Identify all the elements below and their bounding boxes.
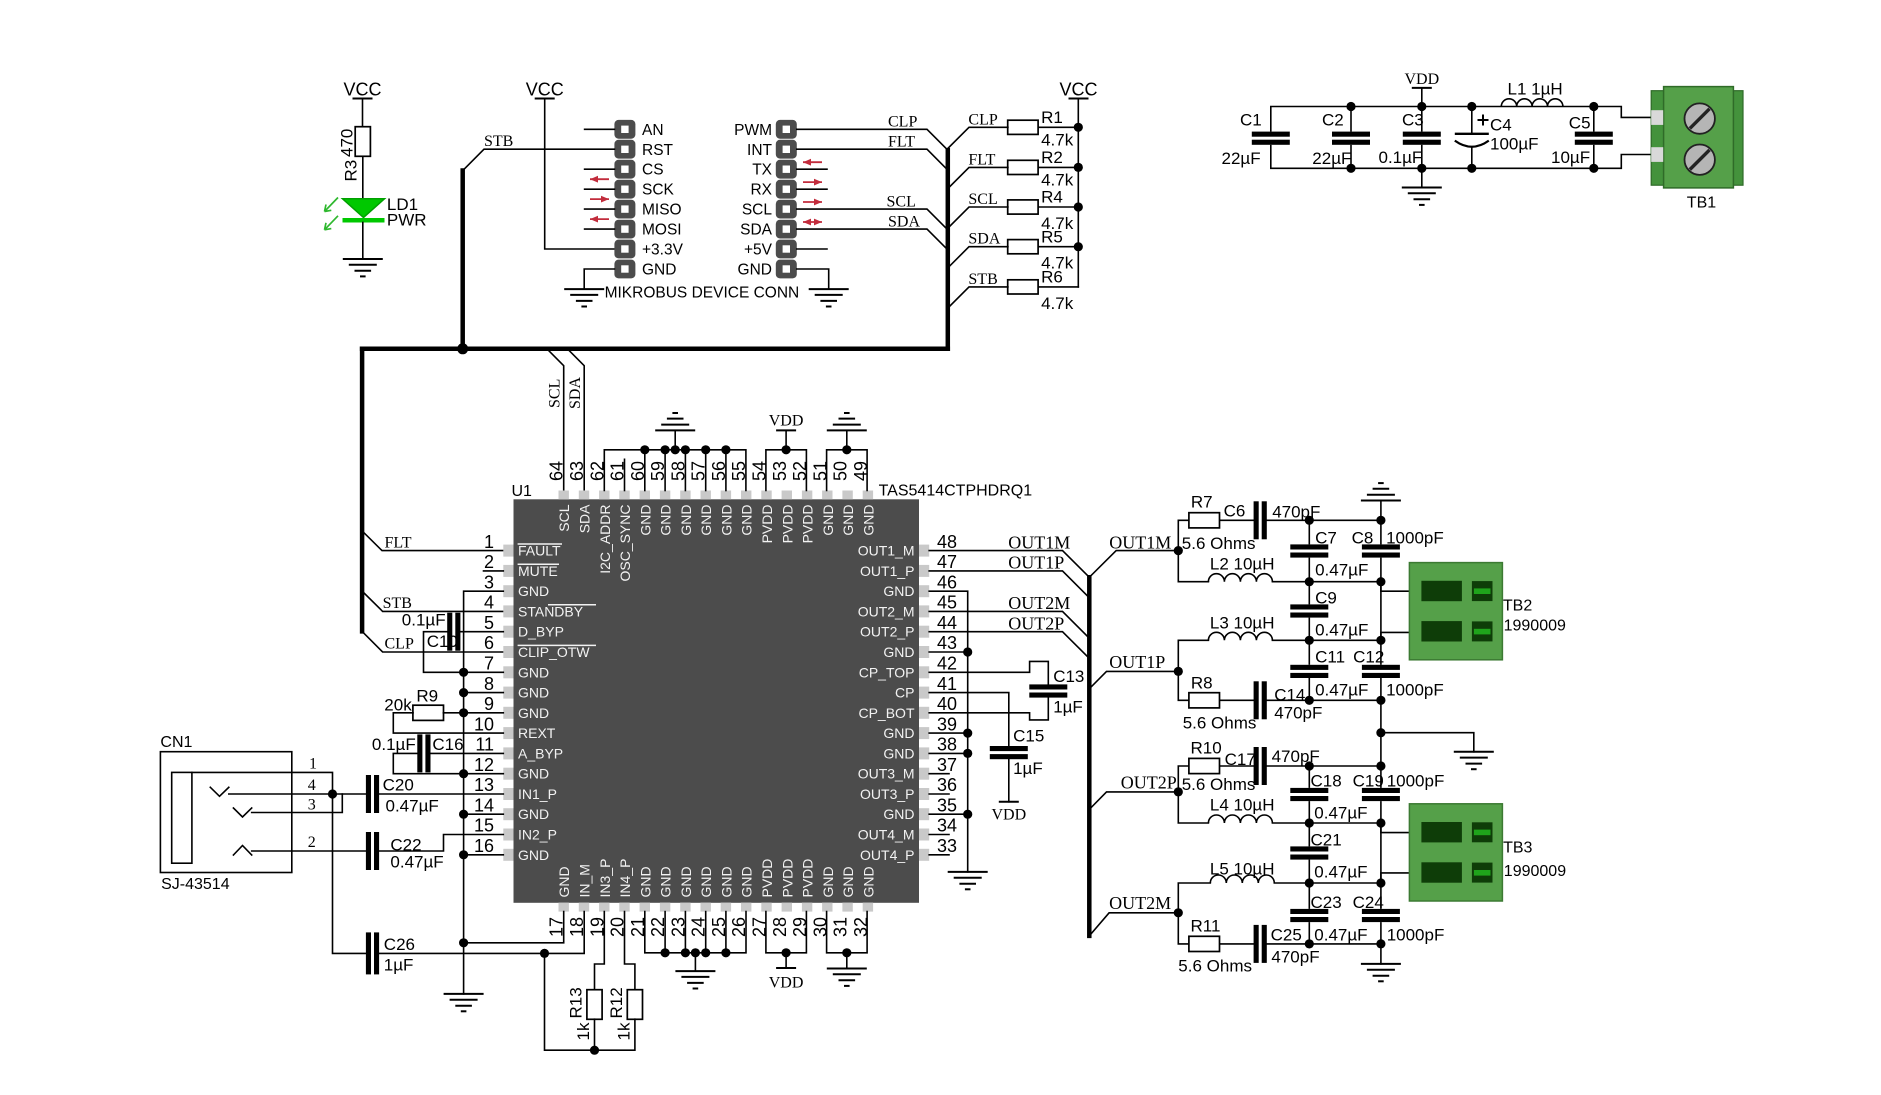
- U1 pin 2 stub: [484, 570, 504, 572]
- U1 MUTE overline: [518, 563, 559, 565]
- svg-text:OUT3_P: OUT3_P: [860, 786, 914, 802]
- svg-text:1k: 1k: [614, 1022, 633, 1040]
- U1 pin 11 (A_BYP): [475, 735, 563, 762]
- wire net SDA (bus to U1 pin 63): [567, 349, 584, 491]
- svg-text:C26: C26: [384, 935, 415, 954]
- connector CN1 outline: [160, 752, 291, 873]
- wire R1 to VCC rail: [1038, 126, 1078, 128]
- svg-text:SJ-43514: SJ-43514: [161, 876, 230, 893]
- U1 pin 48 (OUT1_M): [858, 532, 957, 559]
- wire FLT to R2: [948, 167, 1008, 188]
- junction (C17/C19 rail): [1376, 761, 1385, 770]
- wire C10 to GND (via pin 7 row): [424, 632, 464, 673]
- wire top GND rail (pins 62,60-55): [604, 450, 746, 491]
- svg-text:OUT1M: OUT1M: [1008, 532, 1070, 552]
- wire U1 pin 14 to GND vertical: [464, 813, 504, 815]
- wire OUT1P node to L3: [1178, 640, 1208, 671]
- wire VCC to R3: [362, 99, 364, 128]
- resistor R9: [413, 705, 444, 720]
- svg-text:RST: RST: [642, 142, 674, 159]
- svg-text:STB: STB: [484, 133, 513, 150]
- svg-text:4.7k: 4.7k: [1041, 130, 1074, 149]
- svg-text:GND: GND: [840, 505, 856, 536]
- capacitor C8: [1362, 544, 1400, 549]
- svg-text:SCL: SCL: [556, 504, 572, 531]
- wire MISO stub: [585, 208, 615, 210]
- svg-text:R8: R8: [1191, 674, 1213, 693]
- wire L4 to TB3 row: [1272, 822, 1381, 824]
- wire OUT2P node to L4: [1178, 792, 1208, 823]
- svg-text:38: 38: [937, 735, 957, 755]
- svg-text:OUT1_P: OUT1_P: [860, 563, 914, 579]
- power flag VDD (C15, inverted): [999, 801, 1019, 803]
- svg-text:R5: R5: [1041, 227, 1063, 246]
- U1 pin 44 (OUT2_P): [860, 613, 957, 640]
- svg-text:470: 470: [338, 129, 357, 157]
- U1 pin 42 (CP_TOP): [859, 654, 957, 681]
- inductor L1: [1501, 99, 1563, 107]
- U1 pin 26 (GND): [729, 866, 755, 937]
- svg-text:GND: GND: [698, 505, 714, 536]
- U1 pin 36 stub: [929, 793, 949, 795]
- svg-text:VDD: VDD: [991, 807, 1026, 824]
- wire CP (pin 41) to C15: [929, 693, 1009, 746]
- svg-text:0.1µF: 0.1µF: [372, 735, 416, 754]
- U1 pin 59 (GND): [648, 461, 674, 536]
- svg-text:R2: R2: [1041, 148, 1063, 167]
- svg-text:R9: R9: [416, 687, 438, 706]
- junction (pin 60/GND rail): [640, 445, 649, 454]
- capacitor C15: [990, 746, 1028, 751]
- wire right header GND to ground: [797, 269, 829, 289]
- svg-text:1µF: 1µF: [384, 956, 414, 975]
- wire U1 pin 8 to GND vertical: [464, 692, 504, 694]
- capacitor C21: [1290, 846, 1328, 851]
- U1 pin 16 (GND): [474, 836, 549, 863]
- capacitor C1: [1270, 107, 1272, 132]
- U1 pin 7 (GND): [484, 654, 549, 681]
- svg-text:C14: C14: [1274, 686, 1305, 705]
- wire R12 to U1 pin 20 (IN4_P): [625, 912, 635, 990]
- svg-text:OUT2P: OUT2P: [1008, 613, 1064, 633]
- svg-text:1000pF: 1000pF: [1387, 772, 1445, 791]
- svg-text:A_BYP: A_BYP: [518, 745, 563, 761]
- svg-text:11: 11: [475, 735, 494, 755]
- svg-text:MUTE: MUTE: [518, 563, 558, 579]
- wire R3 to LED: [362, 156, 364, 199]
- wire U1 pin 43 to right GND vertical: [929, 651, 968, 653]
- U1 pin 61 (OSC_SYNC): [608, 461, 634, 582]
- bus wire (right vertical trunk): [946, 150, 951, 349]
- svg-text:C7: C7: [1315, 529, 1337, 548]
- svg-text:GND: GND: [518, 583, 549, 599]
- svg-text:32: 32: [851, 917, 871, 937]
- svg-text:SCK: SCK: [642, 182, 675, 199]
- wire U1 pin 44 (OUT2_P) to bus: [929, 632, 1089, 659]
- wire OUT2M node to R11: [1178, 913, 1188, 944]
- wire net FLT (INT pin to bus): [797, 149, 948, 170]
- junction (C7 bottom/L2): [1305, 577, 1314, 586]
- svg-text:CLP: CLP: [968, 111, 997, 128]
- junction (pin 24/bottom GND rail): [701, 948, 710, 957]
- ground (right GND vertical): [948, 871, 988, 873]
- wire L3 node to TB2 lower terminal: [1381, 632, 1410, 640]
- svg-text:0.47µF: 0.47µF: [390, 853, 443, 872]
- svg-text:0.47µF: 0.47µF: [1315, 561, 1368, 580]
- svg-text:13: 13: [474, 775, 494, 795]
- svg-text:GND: GND: [883, 583, 914, 599]
- direction arrow (TX/RX): [803, 179, 822, 186]
- svg-text:GND: GND: [738, 262, 772, 279]
- capacitor C2: [1350, 107, 1352, 132]
- svg-text:GND: GND: [860, 866, 876, 897]
- svg-text:CLP: CLP: [385, 636, 414, 653]
- ground (right header): [809, 288, 849, 290]
- wire OUT2M node to L5: [1178, 883, 1210, 913]
- ground (left header): [564, 288, 604, 290]
- junction (pin 7/GND vertical): [459, 668, 468, 677]
- ground (output filters bottom): [1361, 963, 1401, 965]
- U1 pin 32 (GND): [851, 866, 877, 937]
- wire net STB (RST pin to bus): [463, 149, 615, 170]
- wire ground tap (pins 50): [846, 430, 848, 449]
- svg-text:VDD: VDD: [769, 413, 804, 430]
- resistor R10: [1189, 758, 1220, 773]
- wire SCK stub: [585, 188, 615, 190]
- wire net OUT2M (bus to filter): [1089, 913, 1178, 936]
- U1 CLIP_OTW overline: [518, 644, 596, 646]
- wire CN1 pin 3: [252, 794, 343, 813]
- capacitor C25: [1254, 925, 1259, 963]
- wire CN1 pin 2: [252, 850, 366, 852]
- junction (C3/bottom rail): [1417, 164, 1426, 173]
- svg-text:SCL: SCL: [547, 379, 564, 408]
- svg-text:C17: C17: [1225, 750, 1256, 769]
- U1 pin 51 (GND): [810, 461, 836, 536]
- bus wire (left vertical trunk): [360, 349, 365, 632]
- junction (STB/trunk): [457, 343, 468, 354]
- wire U1 pin 47 (OUT1_P) to bus: [929, 571, 1089, 598]
- svg-text:GND: GND: [820, 866, 836, 897]
- junction (C3/top rail): [1417, 102, 1426, 111]
- junction (C5/bottom rail): [1589, 164, 1598, 173]
- svg-text:4.7k: 4.7k: [1041, 170, 1074, 189]
- wire C17 to rails: [1267, 765, 1381, 767]
- wire net FLT (bus to U1 pin 1): [362, 531, 503, 551]
- svg-text:C24: C24: [1353, 893, 1384, 912]
- svg-text:41: 41: [937, 674, 957, 694]
- svg-text:C6: C6: [1224, 502, 1246, 521]
- U1 pin 6 (CLIP_OTW): [484, 633, 590, 660]
- junction (C2/top rail): [1346, 102, 1355, 111]
- svg-text:1000pF: 1000pF: [1387, 926, 1445, 945]
- ground (top right rail, inverted): [827, 429, 867, 431]
- junction (C4/top rail): [1467, 102, 1476, 111]
- U1 pin 9 (GND): [484, 694, 549, 721]
- capacitor C18: [1290, 788, 1328, 793]
- wire left GND vertical (pin 3 to ground): [464, 591, 504, 994]
- U1 pin 1 (FAULT): [484, 532, 561, 559]
- U1 pin 62 (I2C_ADDR): [587, 461, 613, 574]
- svg-text:OSC_SYNC: OSC_SYNC: [617, 505, 633, 582]
- wire net SDA (SDA pin to bus): [797, 229, 948, 250]
- svg-text:C23: C23: [1311, 893, 1342, 912]
- U1 pin 52 (PVDD): [790, 461, 816, 543]
- U1 pin 55 (GND): [729, 461, 755, 536]
- wire L4 node to TB3 upper terminal: [1381, 823, 1410, 833]
- U1 pin 34 stub: [929, 834, 949, 836]
- svg-text:L5 10µH: L5 10µH: [1210, 860, 1275, 879]
- wire right GND vertical (pin 46 to ground): [929, 591, 968, 872]
- wire net OUT1M (bus to filter): [1089, 551, 1178, 578]
- wire VCC rail for pull-ups: [1077, 99, 1079, 287]
- resistor R4: [1008, 200, 1038, 214]
- junction (C14/C11 rail): [1305, 696, 1314, 705]
- junction (pin 50 ground tap): [842, 445, 851, 454]
- svg-text:12: 12: [474, 755, 494, 775]
- svg-text:C15: C15: [1013, 727, 1044, 746]
- wire CP_BOT (pin 40) to C13: [929, 698, 1048, 720]
- svg-text:1µF: 1µF: [1013, 759, 1043, 778]
- svg-text:+5V: +5V: [744, 242, 773, 259]
- resistor R8: [1189, 693, 1220, 708]
- junction (C9 bottom/L3): [1305, 636, 1314, 645]
- svg-text:C13: C13: [1053, 667, 1084, 686]
- U1 pin 31 (GND): [831, 866, 857, 937]
- svg-text:GND: GND: [883, 725, 914, 741]
- junction (pin 43/right GND vertical): [963, 647, 972, 656]
- wire R9 to GND vertical: [443, 712, 463, 714]
- capacitor C7: [1290, 544, 1328, 549]
- svg-text:47: 47: [937, 552, 957, 572]
- svg-text:46: 46: [937, 572, 957, 592]
- junction (C2/bottom rail): [1346, 164, 1355, 173]
- svg-text:31: 31: [831, 917, 851, 937]
- svg-text:R10: R10: [1191, 739, 1222, 758]
- U1 pin 37 (OUT3_M): [858, 755, 957, 782]
- svg-text:C5: C5: [1569, 114, 1591, 133]
- svg-text:OUT2_M: OUT2_M: [858, 603, 915, 619]
- svg-text:C18: C18: [1311, 772, 1342, 791]
- junction (OUT1M node): [1174, 546, 1183, 555]
- svg-text:L4 10µH: L4 10µH: [1210, 796, 1275, 815]
- junction (pin 23/bottom GND rail): [681, 948, 690, 957]
- svg-text:34: 34: [937, 816, 957, 836]
- resistor R3: [355, 127, 370, 157]
- bus wire (output trunk): [1087, 577, 1092, 936]
- U1 pin 15 (IN2_P): [474, 816, 557, 843]
- capacitor C4 (electrolytic): [1455, 107, 1489, 169]
- svg-text:2: 2: [484, 552, 494, 572]
- wire R7 to C6: [1220, 519, 1254, 521]
- svg-text:IN_M: IN_M: [577, 864, 593, 897]
- U1 pin 28 (PVDD): [770, 859, 796, 937]
- svg-text:4: 4: [484, 593, 494, 613]
- wire C22 to U1 pin 15 (IN2_P): [379, 835, 503, 852]
- wire stub pin 60 to GND rail: [644, 450, 646, 491]
- svg-text:GND: GND: [642, 262, 676, 279]
- ground (snubber, inverted): [1361, 500, 1401, 502]
- resistor R7: [1189, 513, 1220, 528]
- U1 pin 64 (SCL): [547, 461, 573, 532]
- svg-text:C16: C16: [432, 735, 463, 754]
- U1 pin 45 (OUT2_M): [858, 593, 957, 620]
- wire stub pin 25 to bottom GND rail: [725, 912, 727, 953]
- svg-text:16: 16: [474, 836, 494, 856]
- svg-text:IN1_P: IN1_P: [518, 786, 557, 802]
- U1 pin 61 stub (OSC_SYNC): [624, 459, 626, 490]
- C4 polarity +: [1478, 115, 1489, 126]
- svg-text:GND: GND: [883, 806, 914, 822]
- wire VDD to top rail: [1421, 88, 1423, 107]
- svg-text:43: 43: [937, 633, 957, 653]
- svg-text:50: 50: [831, 461, 851, 481]
- svg-text:STB: STB: [383, 595, 412, 612]
- svg-text:GND: GND: [820, 505, 836, 536]
- svg-text:TB2: TB2: [1503, 598, 1532, 615]
- wire RX stub: [797, 188, 827, 190]
- svg-text:GND: GND: [698, 866, 714, 897]
- svg-text:4: 4: [308, 777, 316, 794]
- svg-text:SCL: SCL: [742, 202, 773, 219]
- svg-text:SCL: SCL: [968, 191, 997, 208]
- direction arrow (MISO/MOSI): [590, 216, 609, 223]
- svg-text:GND: GND: [518, 705, 549, 721]
- capacitor C26: [366, 932, 371, 974]
- svg-text:+3.3V: +3.3V: [642, 242, 684, 259]
- junction (C18 bottom/L4): [1305, 818, 1314, 827]
- svg-text:GND: GND: [518, 806, 549, 822]
- svg-text:33: 33: [937, 836, 957, 856]
- junction (R4/VCC rail): [1074, 202, 1083, 211]
- svg-text:C9: C9: [1315, 589, 1337, 608]
- svg-text:0.47µF: 0.47µF: [1315, 621, 1368, 640]
- wire CS stub: [585, 168, 615, 170]
- wire VCC to +3.3V pin: [545, 99, 615, 250]
- LED LD1 (PWR): [343, 199, 385, 221]
- junction (C14/C12 rail): [1376, 696, 1385, 705]
- wire net CLP (bus to U1 pin 6): [362, 631, 503, 652]
- svg-text:CS: CS: [642, 162, 664, 179]
- svg-text:1: 1: [309, 756, 317, 773]
- svg-text:INT: INT: [747, 142, 773, 159]
- wire left header GND to ground: [584, 269, 614, 289]
- svg-text:OUT1M: OUT1M: [1109, 532, 1171, 552]
- svg-text:TB3: TB3: [1503, 840, 1532, 857]
- wire C10 to pin 5 (D_BYP): [460, 631, 503, 633]
- U1 pin 34 (OUT4_M): [858, 816, 957, 843]
- wire STB to R6: [948, 287, 1008, 308]
- svg-text:GND: GND: [718, 505, 734, 536]
- svg-text:R13: R13: [567, 987, 586, 1018]
- svg-text:3: 3: [484, 572, 494, 592]
- wire C24 rail to ground: [1380, 944, 1382, 964]
- wire power filter bottom rail: [1271, 167, 1594, 169]
- svg-text:5.6 Ohms: 5.6 Ohms: [1178, 957, 1252, 976]
- U1 pin 14 (GND): [474, 795, 549, 822]
- capacitor C12: [1362, 665, 1400, 670]
- svg-text:10µF: 10µF: [1551, 148, 1590, 167]
- wire net OUT2P (bus to filter): [1089, 792, 1178, 810]
- svg-text:GND: GND: [518, 847, 549, 863]
- wire top rail to TB1 pin 1: [1594, 107, 1651, 118]
- U1 FAULT overline: [518, 543, 562, 545]
- junction (C6/C7 rail): [1305, 516, 1314, 525]
- inductor L5: [1210, 875, 1274, 883]
- svg-text:MOSI: MOSI: [642, 222, 682, 239]
- wire OUT2P node to R10: [1178, 766, 1188, 792]
- capacitor C9: [1290, 604, 1328, 609]
- junction (ground tap/GND rail): [671, 445, 680, 454]
- svg-text:FLT: FLT: [888, 134, 915, 151]
- svg-text:1000pF: 1000pF: [1386, 529, 1444, 548]
- CN1 pin 3 contact: [233, 808, 251, 817]
- wire U1 pin 39 to right GND vertical: [929, 732, 968, 734]
- U1 pin 25 (GND): [709, 866, 735, 937]
- junction (C21 bottom/L5): [1305, 878, 1314, 887]
- svg-text:SDA: SDA: [740, 222, 773, 239]
- inductor L3: [1208, 632, 1272, 640]
- svg-text:RX: RX: [750, 182, 772, 199]
- U1 pin 30 (GND): [810, 866, 836, 937]
- junction (bottom ground tap): [691, 948, 700, 957]
- wire bottom rail to TB1 pin 2: [1594, 155, 1651, 169]
- junction (pin 16/GND vertical): [459, 850, 468, 859]
- U1 pin 33 (OUT4_P): [860, 836, 957, 863]
- svg-text:0.47µF: 0.47µF: [1314, 863, 1367, 882]
- svg-text:5.6 Ohms: 5.6 Ohms: [1182, 534, 1256, 553]
- svg-text:1k: 1k: [574, 1022, 593, 1040]
- direction arrow (CS/SCK): [590, 176, 609, 183]
- U1 pin 60 (GND): [628, 461, 654, 536]
- svg-text:C10: C10: [427, 632, 458, 651]
- junction (pin 17 wire/GND vertical): [459, 938, 468, 947]
- svg-text:1990009: 1990009: [1504, 618, 1566, 635]
- svg-text:REXT: REXT: [518, 725, 556, 741]
- wire stub pin 56 to GND rail: [725, 450, 727, 491]
- wire top VDD rail (pins 54-52): [766, 450, 807, 491]
- svg-text:U1: U1: [512, 483, 533, 500]
- svg-text:470pF: 470pF: [1274, 704, 1322, 723]
- wire stub pin 23 to bottom GND rail: [684, 912, 686, 953]
- CN1 pin 2 contact: [233, 846, 251, 856]
- U1 pin 3 (GND): [484, 572, 549, 599]
- svg-text:44: 44: [937, 613, 957, 633]
- svg-text:C11: C11: [1315, 648, 1345, 667]
- U1 pin 56 (GND): [709, 461, 735, 536]
- junction (pin 14/GND vertical): [459, 810, 468, 819]
- junction (pin1/pin4): [328, 789, 337, 798]
- svg-text:C4: C4: [1490, 116, 1512, 135]
- svg-text:GND: GND: [840, 866, 856, 897]
- svg-text:D_BYP: D_BYP: [518, 624, 564, 640]
- svg-text:CP_TOP: CP_TOP: [859, 664, 915, 680]
- U1 pin 54 (PVDD): [750, 461, 776, 543]
- junction (C25/C23 rail): [1305, 939, 1314, 948]
- svg-text:GND: GND: [518, 685, 549, 701]
- svg-text:SDA: SDA: [577, 504, 593, 533]
- svg-text:2: 2: [308, 834, 316, 851]
- wire CN1 pin 4: [229, 793, 333, 795]
- svg-text:IN3_P: IN3_P: [597, 859, 613, 898]
- svg-text:C19: C19: [1353, 772, 1384, 791]
- direction arrow (SCL/SDA): [803, 219, 822, 226]
- svg-text:C8: C8: [1352, 529, 1374, 548]
- junction (OUT2M node): [1174, 908, 1183, 917]
- wire L2 to TB2 row: [1272, 581, 1381, 583]
- direction arrow (INT/TX): [803, 159, 822, 166]
- svg-text:100µF: 100µF: [1490, 135, 1539, 154]
